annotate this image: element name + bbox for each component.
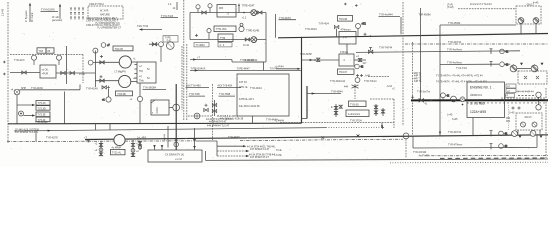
note text rows right of drain bbox=[217, 115, 244, 121]
terminal pin cluster 3x4 bbox=[70, 8, 84, 20]
jumper vertical at x36 bbox=[35, 131, 37, 141]
module left downcomer bbox=[16, 95, 18, 124]
valve V11 bbox=[202, 11, 206, 14]
aux pump riser left bbox=[513, 63, 515, 66]
rail B dotted continuation bbox=[326, 126, 380, 128]
pin stubs of U2 bbox=[134, 65, 137, 79]
tag box TN3-05 left bbox=[37, 48, 54, 53]
dashed enclosure TY51 block top bbox=[370, 98, 394, 100]
instrument circle on rail top bbox=[93, 48, 98, 53]
purifier room dashed boundary top bbox=[10, 54, 83, 56]
valve V42 bbox=[61, 71, 65, 74]
cross valve on rail D bbox=[87, 139, 90, 142]
svg-text:LT Mfg/PN: LT Mfg/PN bbox=[115, 71, 127, 74]
svg-text:TYR-44/4T: TYR-44/4T bbox=[228, 136, 240, 139]
svg-text:TN3-05: TN3-05 bbox=[115, 48, 124, 51]
node riser V2 with up arrow bbox=[59, 4, 61, 19]
aux pump circle left hatched bbox=[510, 65, 517, 72]
svg-text:TYR-44/T44: TYR-44/T44 bbox=[448, 41, 462, 44]
crossing cluster top bbox=[344, 85, 359, 89]
svg-text:TYR-44/3U: TYR-44/3U bbox=[31, 87, 43, 90]
rail F lower right bbox=[413, 146, 537, 149]
svg-text:T4N-TY44: T4N-TY44 bbox=[137, 25, 149, 28]
tick valve on rail C bbox=[490, 131, 493, 137]
downcomer from U2 bbox=[139, 83, 141, 96]
net label 4XX TY8-48Y underlined bbox=[217, 85, 241, 88]
connector circle on rail C bbox=[403, 133, 409, 139]
svg-text:44T 3P44/T4T-4T: 44T 3P44/T4T-4T bbox=[250, 156, 269, 159]
svg-text:TM;: TM; bbox=[139, 70, 143, 73]
valve V71 with stem bbox=[334, 25, 338, 37]
svg-text:ENGINE N0. 1: ENGINE N0. 1 bbox=[470, 85, 492, 89]
svg-text:TTPE-42/4E: TTPE-42/4E bbox=[246, 29, 260, 32]
label J-45 pair left bbox=[447, 114, 458, 122]
supply header rail vertical bbox=[189, 13, 191, 40]
svg-text:W. XYR: W. XYR bbox=[100, 10, 109, 13]
engine drain drop to rail C bbox=[472, 118, 474, 136]
net label TYPE-44/54 underlined center bbox=[143, 86, 167, 89]
small label cluster top center bbox=[168, 2, 177, 10]
tag boxes TK5B upper pair bbox=[36, 101, 50, 111]
arrow terminator on dashed bottom bbox=[381, 123, 383, 129]
purifier room dashed boundary right bbox=[82, 55, 84, 84]
dashed drop from connector bbox=[405, 139, 407, 158]
dashed enclosure TY51 block bottom bbox=[280, 122, 394, 124]
drain label rows left bottom middle bbox=[275, 149, 283, 157]
svg-text:TYR-44/44: TYR-44/44 bbox=[250, 87, 262, 90]
svg-text:48T1 4L: 48T1 4L bbox=[239, 86, 248, 89]
svg-text:444 3P44/44.TLX.4T: 444 3P44/44.TLX.4T bbox=[207, 125, 230, 128]
return riser right bbox=[265, 13, 267, 63]
instrument stem T2 bbox=[207, 29, 211, 40]
left drop to rail F bbox=[412, 136, 414, 148]
small valve above meter bbox=[339, 105, 342, 108]
svg-text:TY.TE-44/T4 + 4T+44L.4T.4 44T4: TY.TE-44/T4 + 4T+44L.4T.4 44T4L +4T1 44 bbox=[436, 74, 483, 77]
valve V31 bbox=[152, 43, 156, 46]
engine right column small box bbox=[506, 94, 515, 98]
valve cross on stem bbox=[107, 86, 110, 89]
svg-text:TYR-44/44: TYR-44/44 bbox=[305, 28, 317, 31]
valve tick on pressure line bbox=[368, 48, 372, 54]
instrument stack LI bbox=[239, 23, 244, 31]
valve V43 bbox=[70, 71, 74, 74]
tank inlet post 4 from rail B bbox=[193, 128, 196, 150]
branch line to TY51 block bbox=[307, 92, 341, 94]
GM LT inner circle left bbox=[521, 122, 526, 127]
svg-text:TYR-45/4M: TYR-45/4M bbox=[448, 22, 460, 25]
vent cross above V51 bbox=[100, 55, 103, 58]
transfer pump big circle bbox=[114, 134, 125, 145]
meter box lower bbox=[346, 110, 369, 117]
svg-text:TYR-41/4X: TYR-41/4X bbox=[86, 87, 98, 90]
svg-text:J+45: J+45 bbox=[509, 111, 515, 114]
svg-text:J+48: J+48 bbox=[365, 75, 371, 78]
heater box E1 bbox=[217, 5, 236, 18]
valve bowtie at pump drain bbox=[102, 86, 106, 89]
svg-text:4T4mmm: 4T4mmm bbox=[341, 29, 351, 32]
svg-text:+1.2: +1.2 bbox=[242, 17, 247, 20]
svg-text:TY21-4L: TY21-4L bbox=[112, 152, 122, 155]
vent cross above V52 bbox=[100, 75, 103, 78]
pressure line from filter top bbox=[356, 51, 520, 53]
svg-text:TYR-4m/4mm: TYR-4m/4mm bbox=[447, 49, 462, 52]
net label 4XX TY8-48X underlined bbox=[186, 85, 210, 88]
engine right column dotted row a bbox=[518, 95, 534, 97]
dashed stub right of TN3-97 bbox=[368, 76, 390, 78]
dense tick band above heavy rail bbox=[502, 97, 544, 99]
dashed enclosure TY51 block right bbox=[393, 99, 395, 128]
hose valve column x133 bbox=[131, 140, 139, 157]
tag box row under subcircuit right bbox=[218, 43, 232, 48]
gauge TG4 large bbox=[167, 42, 175, 50]
vent cross top a bbox=[344, 3, 347, 6]
instrument A2 above heavy rail bbox=[441, 93, 450, 100]
svg-text:TYR-41/X: TYR-41/X bbox=[14, 59, 25, 62]
valve V41 bbox=[22, 71, 26, 74]
arrowhead on rail B bbox=[48, 130, 51, 132]
pump P3 LT lube bbox=[119, 56, 131, 68]
staircase from rail D bbox=[196, 141, 249, 157]
skid inner marks bbox=[524, 76, 539, 79]
rail B sloped long bbox=[14, 128, 326, 131]
triangle valve at aux pump1 bbox=[520, 63, 523, 66]
tag box TY21-4L under pump bbox=[111, 147, 126, 155]
drain tank box bbox=[148, 150, 202, 162]
svg-text:generator: generator bbox=[52, 19, 62, 22]
inline strainer circle on heavy rail bbox=[451, 96, 457, 102]
settling box drop to rail bbox=[252, 116, 254, 123]
svg-text:4mmmmT 4 Tmm44: 4mmmmT 4 Tmm44 bbox=[470, 3, 492, 6]
net label TYPE-44/54 underlined topleft bbox=[279, 17, 297, 20]
link between filters bbox=[346, 44, 348, 54]
vent riser with rotated label bbox=[164, 126, 168, 148]
instrument A2 under filter bbox=[355, 64, 364, 69]
pipe run row2 bbox=[190, 39, 266, 41]
arrow feed to heater tags lower bbox=[24, 114, 36, 116]
suction pipe left of U3 bbox=[10, 72, 40, 74]
svg-text:TY5I-05: TY5I-05 bbox=[350, 103, 359, 106]
genset circle right hatched bbox=[533, 18, 539, 24]
pump P4 LT lube standby bbox=[119, 75, 131, 87]
svg-text:CX DRAIN TK (X): CX DRAIN TK (X) bbox=[165, 154, 184, 157]
svg-text:44T 3P44/4T-4.4T: 44T 3P44/4T-4.4T bbox=[250, 148, 270, 151]
riser from subcircuit bbox=[275, 14, 277, 38]
instrument A2 rail F bbox=[499, 144, 508, 149]
label A7 instrument bbox=[101, 43, 110, 48]
valve V51 bbox=[100, 61, 104, 64]
dashed boundary right edge bbox=[545, 88, 547, 158]
pipe to GM17 box bbox=[440, 24, 516, 26]
dashed instrument line vertical bbox=[212, 84, 214, 140]
net label TYN-T4/X underlined bbox=[161, 14, 179, 18]
svg-text:MIX: MIX bbox=[219, 7, 224, 10]
svg-text:444: 444 bbox=[344, 86, 349, 89]
arrowhead on heavy rail bbox=[429, 99, 433, 101]
svg-text:S. 0UTBD: S. 0UTBD bbox=[470, 102, 485, 106]
tag box T47 bbox=[163, 36, 178, 43]
svg-text:. T4 4L: . T4 4L bbox=[275, 149, 283, 152]
valve bowtie on heavy rail bbox=[419, 99, 428, 106]
svg-text:TY-4843: TY-4843 bbox=[196, 44, 206, 47]
svg-text:44T 3PM/44 TLX-4TL: 44T 3PM/44 TLX-4TL bbox=[15, 131, 39, 134]
tag box TN3-05 right bbox=[113, 46, 133, 51]
svg-text:44P TL: 44P TL bbox=[414, 80, 422, 83]
svg-text:CXR-0Y/TR-2: CXR-0Y/TR-2 bbox=[89, 3, 105, 6]
purifier box U3 bbox=[40, 65, 56, 78]
dashed bus line B2 vertical bbox=[186, 44, 188, 121]
tag box TN3-4B bbox=[116, 91, 133, 96]
svg-text:44T XX: 44T XX bbox=[239, 81, 247, 84]
drain cross pair J45 bbox=[509, 107, 521, 115]
genset circle left hatched bbox=[518, 18, 524, 24]
chain dashes heavy bottom bbox=[440, 157, 548, 159]
svg-text:TY5.3E: TY5.3E bbox=[38, 114, 46, 117]
instrument FI6 side bbox=[88, 60, 95, 65]
rail C long sloped bbox=[85, 135, 548, 140]
duct wall left vertical bbox=[301, 37, 303, 123]
tick valve rail F bbox=[490, 144, 493, 150]
dashed drain link bbox=[188, 115, 212, 117]
filter box F1 upper bbox=[339, 29, 356, 44]
module top pipe bbox=[20, 89, 80, 91]
valve stack V62 bbox=[212, 100, 216, 116]
node riser V1 with up arrow bbox=[29, 3, 31, 22]
svg-text:TYR-T4/T44: TYR-T4/T44 bbox=[379, 46, 393, 49]
triangle valve rail C left bbox=[519, 136, 522, 138]
net label TYPE-4M/44 with underline bbox=[245, 59, 264, 62]
three-way junction circle bbox=[173, 104, 180, 111]
svg-text:TYN-02/06: TYN-02/06 bbox=[41, 8, 55, 12]
GM17 genset drop left bbox=[520, 23, 522, 33]
svg-text:TYR-40/4: TYR-40/4 bbox=[319, 22, 330, 25]
junction cross small on rail C bbox=[357, 134, 360, 137]
svg-text:44L.34XU.4C41.38: 44L.34XU.4C41.38 bbox=[239, 105, 260, 108]
inlet line to filters bbox=[302, 58, 340, 61]
scan noise speckle bbox=[10, 4, 545, 160]
control unit box U2 bbox=[137, 62, 156, 83]
svg-text:TY/4-T4/4: TY/4-T4/4 bbox=[456, 67, 467, 70]
circle on main downfeed bbox=[174, 142, 179, 147]
sub-system dashed box U0 bbox=[88, 6, 123, 19]
triangle valve rail C right bbox=[540, 136, 543, 138]
instrument PI2 bbox=[208, 4, 212, 13]
rail D dash-dot left bbox=[7, 140, 196, 143]
purifier room exit vertical bbox=[66, 46, 68, 84]
svg-text:44T8.4L.41T1: 44T8.4L.41T1 bbox=[239, 98, 255, 101]
generator set GM LT dashed box bbox=[516, 113, 542, 130]
border cross mark upper bbox=[3, 61, 6, 64]
instrument A2 on rail C bbox=[499, 131, 508, 136]
svg-text:TY51-05A: TY51-05A bbox=[216, 28, 227, 31]
svg-text:4+4mmmm: 4+4mmmm bbox=[348, 113, 360, 116]
junction dot row1 bbox=[243, 12, 245, 14]
right riser rail C to F bbox=[536, 135, 538, 148]
svg-text:44 3P44/T4T-4T: 44 3P44/T4T-4T bbox=[209, 121, 227, 124]
filter box F2 lower bbox=[339, 51, 354, 66]
svg-text:YU UPWERB/TER-CT: YU UPWERB/TER-CT bbox=[97, 26, 122, 29]
dense tick band below heavy rail bbox=[468, 102, 544, 104]
svg-text:. S: . S bbox=[226, 13, 229, 16]
svg-text:TN3-97: TN3-97 bbox=[339, 71, 348, 74]
vertical rail x440 bbox=[439, 25, 441, 136]
svg-text:. T4 8L: . T4 8L bbox=[275, 154, 283, 157]
dashed sensor line top bbox=[458, 8, 516, 10]
generator set GM17 dashed box bbox=[516, 3, 541, 24]
lube line extension to aux pumps bbox=[504, 63, 510, 65]
tag box row under subcircuit left bbox=[194, 43, 209, 48]
module right downcomer bbox=[64, 92, 66, 124]
svg-text:J9 44: J9 44 bbox=[243, 44, 250, 47]
svg-text:JT/4x: JT/4x bbox=[79, 73, 86, 76]
pump circle on rail C left bbox=[512, 131, 518, 137]
instrument DI2 with stem bbox=[57, 55, 62, 65]
cross tick on dashed border bbox=[411, 96, 414, 99]
tick valve y52 bbox=[490, 49, 493, 54]
main fuel rail sloped top bbox=[278, 34, 548, 38]
net label TYPE-44/444 upper right bbox=[379, 14, 401, 17]
branch wire from label to rail bbox=[400, 17, 402, 34]
valve V12 bbox=[258, 11, 262, 14]
transfer line upper step bbox=[190, 58, 266, 62]
instrument circle right lower bbox=[536, 101, 541, 110]
svg-text:4 . 4: 4 . 4 bbox=[220, 44, 225, 47]
svg-text:1.5-4B: 1.5-4B bbox=[1, 9, 4, 16]
svg-text:T4.TE-44/T4 . 4T+44L 4T 4 44T4: T4.TE-44/T4 . 4T+44L 4T 4 44T4L +4T1 44 … bbox=[436, 81, 488, 84]
right column dotted guide bbox=[508, 105, 510, 130]
drain crosses J pair bbox=[356, 74, 363, 77]
svg-text:3+45: 3+45 bbox=[452, 118, 458, 121]
net label TYPE-T4/8 underlined bbox=[189, 93, 206, 96]
chain boundary line y44 bbox=[405, 43, 548, 45]
bypass valve XL7 bbox=[354, 55, 367, 65]
feed text arrow left bbox=[275, 66, 301, 70]
link pipe between aux pumps bbox=[517, 68, 531, 70]
svg-text:xx OIL: xx OIL bbox=[42, 68, 50, 71]
svg-text:4+45: 4+45 bbox=[533, 2, 539, 5]
svg-text:4L7: 4L7 bbox=[363, 62, 368, 65]
hose valve column x101 bbox=[95, 141, 103, 156]
valve stack right of meter bbox=[374, 104, 377, 116]
dashed valve column center bbox=[354, 84, 356, 99]
main rail A horizontal bbox=[8, 122, 302, 125]
strainer box E2 bbox=[218, 34, 233, 42]
discharge pipe right of U3 bbox=[56, 72, 95, 74]
svg-text:TYR-44/4m44: TYR-44/4m44 bbox=[330, 80, 346, 83]
svg-text:TYR-34/T44: TYR-34/T44 bbox=[448, 131, 462, 134]
instrument circle dotted bbox=[19, 111, 24, 116]
pipe run row1 bbox=[190, 12, 266, 14]
GM LT drops to rail C bbox=[518, 130, 540, 134]
svg-text:TYN-38/384: TYN-38/384 bbox=[143, 86, 157, 89]
arrow feed to heater tags upper bbox=[17, 104, 35, 106]
label W.abt generator bbox=[52, 16, 62, 22]
instrument A2 y52 bbox=[500, 49, 509, 54]
pipe stub to TI3 bbox=[149, 43, 158, 45]
instrument PI1 bbox=[196, 5, 200, 13]
aux pump circle right hatched bbox=[531, 65, 538, 72]
svg-text:+1 m3: +1 m3 bbox=[175, 158, 182, 161]
border cross mark lower bbox=[3, 73, 6, 76]
main downfeed to tank bbox=[175, 84, 177, 150]
cooler outlet stub bbox=[169, 107, 173, 109]
tank inlet post 1 triangle bbox=[153, 145, 156, 150]
small dash pair right column bbox=[506, 118, 510, 121]
second drop rail A to rail B bbox=[109, 123, 111, 130]
svg-text:AFRD D1: AFRD D1 bbox=[470, 93, 482, 97]
pump P1 circle with cross bbox=[251, 10, 257, 16]
net label TYPE-T848 underlined bbox=[219, 93, 236, 96]
svg-text:TYPE-EX4XX: TYPE-EX4XX bbox=[191, 67, 206, 70]
tag box TN3-08 bbox=[338, 16, 353, 22]
svg-text:C4R-0Y/TR C4-T4P/UL RE.T: C4R-0Y/TR C4-T4P/UL RE.T bbox=[86, 17, 118, 20]
svg-text:TY5.3D: TY5.3D bbox=[38, 107, 46, 110]
svg-text:122A+I495: 122A+I495 bbox=[470, 110, 486, 114]
drain pot circle bbox=[194, 113, 200, 119]
dash-dot monitor line center bottom bbox=[240, 139, 403, 140]
note row pair upper right of stairs bbox=[247, 146, 276, 152]
note row pair lower right of stairs bbox=[249, 153, 277, 159]
svg-text:TN3: TN3 bbox=[38, 50, 43, 53]
svg-text:TMu: TMu bbox=[139, 80, 144, 83]
instrument FI5 bbox=[137, 96, 142, 101]
inline meter circle crossed bbox=[460, 97, 465, 102]
pump2 suction pipe bbox=[95, 80, 118, 82]
pump1 suction pipe bbox=[95, 61, 119, 63]
svg-text:TY5.3C: TY5.3C bbox=[38, 102, 46, 105]
svg-text:TN3-08: TN3-08 bbox=[339, 18, 348, 21]
big settling box bbox=[237, 74, 289, 116]
valve V21 bbox=[245, 38, 249, 41]
net label TYN-02/06 underlined bbox=[41, 8, 59, 12]
drain rig: stem bbox=[108, 89, 110, 97]
instrument circle right upper bbox=[536, 92, 541, 100]
valve stack left of meter bbox=[331, 104, 338, 117]
drain instrument circle bbox=[355, 78, 360, 83]
vent stub with arrow bbox=[238, 3, 240, 12]
svg-text:NATURE: NATURE bbox=[100, 14, 110, 17]
svg-text:TYR-3m/Tm: TYR-3m/Tm bbox=[417, 91, 430, 94]
dashed boundary line vertical right2 bbox=[412, 42, 414, 137]
svg-text:TYR-4m/4mm: TYR-4m/4mm bbox=[447, 61, 462, 64]
svg-text:TYR-42/78: TYR-42/78 bbox=[46, 136, 58, 139]
valve V52 bbox=[100, 79, 104, 82]
label (T+P) rows bbox=[447, 3, 454, 9]
svg-text:TYR 3T/34: TYR 3T/34 bbox=[350, 120, 362, 123]
GM LT inner circle right bbox=[532, 122, 537, 127]
tank left feed valve bbox=[138, 141, 141, 150]
tag box TY51-05A bbox=[214, 26, 236, 32]
svg-text:COOL: COOL bbox=[156, 106, 159, 113]
instrument TI8 with stem bbox=[356, 23, 367, 37]
module drop from above bbox=[79, 85, 81, 90]
heavy fuel rail thick bbox=[411, 99, 548, 101]
tag box TN3-97 bbox=[338, 69, 355, 74]
dashed boundary line vertical right1 bbox=[402, 2, 404, 126]
dashed bus line B0 vertical bbox=[181, 46, 183, 110]
instrument DI1 with stem bbox=[32, 55, 37, 65]
svg-text:+L+P/44: +L+P/44 bbox=[275, 66, 285, 69]
LO module junction circle bbox=[14, 89, 20, 95]
junction x mark on rail C mid bbox=[322, 136, 325, 139]
downcomer from FI5 to rail bbox=[139, 102, 141, 124]
outlet tick upper train bbox=[364, 33, 372, 37]
transfer line lower step bbox=[190, 62, 302, 72]
vertical rail x420 bbox=[420, 8, 422, 100]
junction dot rail C bbox=[357, 135, 359, 137]
lube line y64 bbox=[440, 63, 499, 65]
svg-text:+PUR: +PUR bbox=[42, 73, 49, 76]
tag boxes right of engine bbox=[506, 84, 516, 93]
